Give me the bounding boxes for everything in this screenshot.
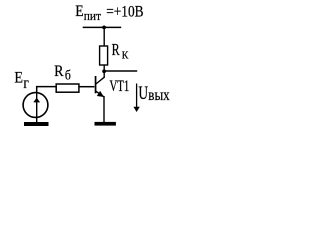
resistor Rк [100,46,108,65]
wire Rк to collector [103,65,105,78]
label Rб [54,61,71,83]
ground (source) [24,122,49,126]
junction on power rail [102,26,106,30]
svg-text:г: г [23,75,29,92]
label Uвых [138,83,169,104]
ground (emitter) [95,122,116,126]
svg-text:Е: Е [14,69,23,86]
value label Епит=+10В (supply voltage text) [75,1,143,23]
wire rail to Rк [103,27,105,46]
source Ег circle [23,93,48,118]
transistor VT1 base bar [95,76,97,93]
wire source top corner [37,87,57,93]
source Ег internal wire [36,93,38,122]
label Rк [112,40,130,62]
svg-text:R: R [112,40,120,59]
svg-text:б: б [65,68,71,83]
arrow head Uвых (down) [133,107,139,112]
svg-text:VT1: VT1 [110,78,130,95]
svg-text:=+10В: =+10В [106,3,143,20]
arrow line Uвых [136,84,138,109]
svg-text:вых: вых [148,87,169,104]
svg-text:R: R [54,61,64,80]
transistor VT1 emitter lead [96,91,104,97]
power rail Епит [83,26,122,28]
label Ег [14,69,29,92]
svg-text:пит: пит [84,9,102,23]
wire emitter to ground [103,96,105,122]
junction collector node [102,69,106,73]
resistor Rб [56,84,79,92]
svg-text:Е: Е [75,1,83,20]
wire collector node to output [104,70,137,72]
transistor VT1 collector lead [96,77,104,84]
wire Rб to base [79,86,95,88]
svg-text:U: U [138,83,148,104]
source Ег arrow (up) [33,98,40,103]
svg-text:К: К [122,50,130,61]
transistor VT1 emitter arrow [97,91,104,97]
